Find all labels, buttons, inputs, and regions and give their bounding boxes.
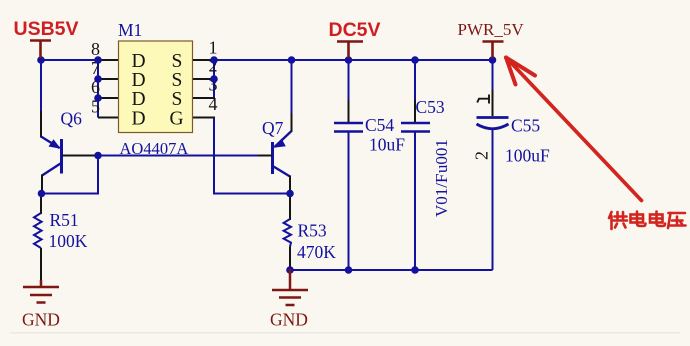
wire: C54 branch: [348, 60, 350, 103]
C55 pin number 1: [477, 95, 489, 104]
svg-text:GND: GND: [270, 310, 308, 330]
svg-text:D: D: [132, 89, 146, 110]
node: DC5V / C54 rail: [345, 56, 353, 64]
M1 pin 2 stub: [193, 78, 216, 80]
svg-text:2: 2: [471, 151, 491, 160]
M1 pin 4 stub: [193, 117, 216, 119]
capacitor C55 polarized: [477, 90, 509, 129]
M1 pin 7 stub: [98, 78, 119, 80]
wire: Q7 emitter up to rail: [291, 60, 293, 114]
svg-text:GND: GND: [22, 310, 60, 330]
svg-text:R51: R51: [50, 210, 79, 230]
svg-text:1: 1: [209, 38, 218, 58]
node: Q7 collector junction: [286, 190, 294, 198]
node: R53 bottom / GND junction: [286, 266, 294, 274]
svg-text:0: 0: [432, 156, 451, 165]
svg-text:10uF: 10uF: [369, 135, 405, 155]
svg-text:1: 1: [432, 188, 451, 197]
svg-text:470K: 470K: [297, 242, 336, 262]
transistor Q7: [258, 113, 292, 194]
M1 pin 6 stub: [98, 97, 119, 99]
node: pin1 rail: [210, 56, 218, 64]
node: Q6 collector junction: [38, 190, 46, 198]
wire: bottom rail: [290, 269, 493, 271]
power port PWR_5V bar: [483, 42, 504, 59]
char 电 (2): [650, 212, 665, 227]
svg-text:100uF: 100uF: [505, 146, 550, 166]
node: pin6 bus: [94, 94, 102, 102]
node: PWR_5V / C55 rail: [489, 56, 497, 64]
svg-text:Q7: Q7: [262, 118, 284, 138]
power port USB5V bar: [30, 41, 51, 59]
ground symbol left: [23, 280, 59, 303]
node: USB5V junction: [37, 56, 45, 64]
node: Q6 base junction: [94, 152, 102, 160]
node: C53 bottom: [411, 266, 419, 274]
annotation text 供电电压 (hand-drawn strokes): [609, 212, 686, 230]
M1 body: [119, 41, 193, 133]
svg-text:D: D: [132, 51, 146, 72]
svg-text:C53: C53: [416, 97, 445, 117]
resistor R51: [34, 193, 42, 281]
node: Q7 emitter rail: [288, 56, 296, 64]
C53 value 100uF/10V rotated: [432, 139, 451, 217]
svg-text:D: D: [132, 70, 146, 91]
svg-text:C54: C54: [365, 115, 394, 135]
svg-text:PWR_5V: PWR_5V: [458, 20, 525, 39]
svg-text:100K: 100K: [49, 231, 88, 251]
node: C53 rail: [411, 56, 419, 64]
svg-text:DC5V: DC5V: [329, 19, 381, 41]
M1 pin 3 stub: [193, 97, 216, 99]
svg-text:/: /: [432, 183, 451, 188]
svg-text:u: u: [432, 164, 451, 173]
svg-text:F: F: [432, 174, 451, 183]
svg-text:C55: C55: [511, 116, 540, 136]
svg-text:S: S: [172, 51, 183, 72]
power port DC5V bar: [337, 42, 363, 59]
wire: M1 right pin bus vertical (pins 1-3): [213, 60, 215, 98]
wire: USB5V junction to M1 left pins: [40, 59, 98, 61]
capacitor C53: [401, 100, 430, 132]
transistor Q6: [41, 111, 96, 194]
char 电 (1): [631, 212, 646, 227]
M1 pin 1 stub: [193, 59, 216, 61]
wire: M1 pin 4 (G) down and right to Q7 collector node: [214, 118, 290, 194]
svg-text:S: S: [172, 70, 183, 91]
svg-text:1: 1: [432, 139, 451, 148]
wire: C55 branch: [492, 60, 494, 92]
char 压: [668, 213, 686, 228]
node: pin8 bus: [94, 56, 102, 64]
faint page edge smear at bottom: [10, 332, 680, 334]
svg-text:AO4407A: AO4407A: [120, 139, 189, 158]
capacitor C54: [334, 100, 363, 132]
annotation arrow to PWR_5V: [506, 58, 642, 201]
wire: Q6 base to Q7 base long horizontal: [62, 155, 272, 157]
svg-text:8: 8: [91, 39, 100, 59]
M1 pin 5 stub: [98, 117, 119, 119]
wire: top power rail: [214, 59, 494, 61]
svg-text:S: S: [172, 89, 183, 110]
wire: Q6 base-collector loop: [42, 156, 99, 194]
svg-text:4: 4: [209, 94, 218, 114]
svg-text:Q6: Q6: [61, 109, 83, 129]
wire: M1 left pin bus vertical: [97, 60, 99, 118]
M1 pin 8 stub: [98, 59, 119, 61]
svg-text:0: 0: [432, 148, 451, 157]
svg-text:D: D: [132, 109, 146, 130]
svg-text:USB5V: USB5V: [14, 18, 79, 40]
node: pin2 bus: [210, 75, 218, 83]
char 供: [609, 212, 627, 229]
svg-text:V: V: [432, 204, 451, 217]
resistor R53: [284, 193, 291, 270]
ground symbol right: [272, 269, 308, 305]
node: pin7 bus: [94, 75, 102, 83]
svg-text:0: 0: [432, 196, 451, 205]
wire: USB5V down to Q6 emitter: [40, 59, 42, 112]
svg-text:M1: M1: [118, 20, 142, 40]
svg-text:G: G: [170, 109, 184, 130]
svg-text:R53: R53: [298, 221, 327, 241]
wire: C53 branch: [414, 60, 416, 103]
node: C54 bottom: [345, 266, 353, 274]
